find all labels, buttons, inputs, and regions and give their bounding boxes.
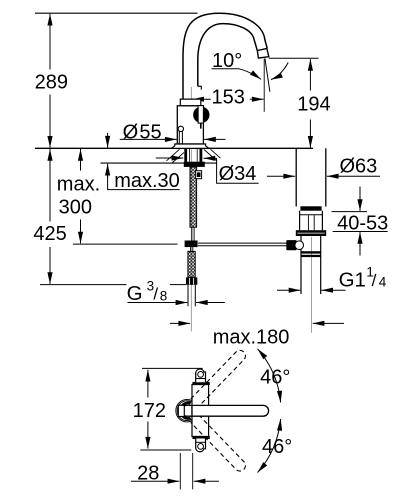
waste body: [300, 236, 302, 294]
pivot ring thick arc: [180, 403, 190, 418]
pull-rod knob on left: [178, 126, 183, 144]
dimension Ø55: [120, 121, 226, 143]
connecting lines below clamp: [190, 247, 192, 251]
spout inner end step: [198, 86, 202, 89]
svg-text:4: 4: [379, 275, 387, 290]
escutcheon base: [171, 144, 209, 148]
svg-text:max.: max.: [57, 173, 100, 195]
top reference line (spout top level): [35, 12, 198, 14]
dimension 40-53: [332, 187, 389, 256]
extension line at spout outlet (vertical): [263, 59, 265, 112]
dimension max.300 vertical: [57, 149, 178, 244]
svg-text:289: 289: [35, 71, 68, 93]
waste upper cylinder: [299, 211, 301, 231]
braided hose upper: [190, 167, 197, 227]
svg-text:G1: G1: [339, 268, 366, 291]
dimension 194: [269, 58, 331, 147]
dimension Ø63: [267, 156, 380, 178]
svg-text:max.180: max.180: [213, 327, 290, 349]
body top collar bar: [193, 382, 209, 384]
counter section hatching left: [167, 149, 185, 163]
svg-text:46°: 46°: [260, 367, 290, 389]
dimension max.30 (counter thickness): [108, 133, 180, 192]
dimension 425 vertical: [33, 149, 66, 284]
dashed spout position lower: [191, 415, 248, 473]
ball joint: [295, 241, 304, 250]
connector block on hose: [195, 171, 201, 179]
svg-text:40-53: 40-53: [337, 213, 388, 235]
svg-text:300: 300: [59, 196, 92, 218]
locknut (black): [184, 162, 205, 167]
G3/8 thread stubs: [187, 285, 189, 307]
pull rod thin section: [191, 227, 193, 240]
svg-text:425: 425: [33, 223, 66, 245]
swivel arc lower 46: [258, 419, 281, 473]
counter section hatching right: [204, 149, 221, 161]
plan body: [192, 385, 209, 437]
horizontal pop-up rod linkage: [198, 242, 287, 244]
svg-text:46°: 46°: [262, 436, 292, 458]
svg-text:/: /: [372, 271, 377, 290]
dashed spout position upper: [191, 348, 248, 406]
svg-text:28: 28: [137, 462, 159, 484]
G3/8 nut (black): [186, 277, 197, 284]
dimension 289 vertical line with arrows: [35, 14, 68, 148]
dimension max.180: [170, 323, 344, 348]
172 top reference line: [142, 367, 203, 369]
svg-text:8: 8: [160, 288, 168, 303]
rod clamp (black): [185, 241, 198, 248]
counter top surface line: [35, 147, 313, 149]
G 3/8 leader line: [40, 284, 127, 286]
dimension Ø34 arrows and leader: [156, 158, 259, 185]
body bottom collar bar: [193, 436, 209, 438]
pivot ring outer circles: [176, 400, 198, 422]
counter underside line: [101, 162, 217, 164]
G 3/8 thread dimension arrows: [128, 302, 225, 304]
dimension 153: [192, 87, 263, 109]
spout outer profile: [183, 13, 267, 99]
spout inner profile: [198, 24, 257, 87]
svg-text:/: /: [153, 285, 158, 304]
dimension G1 1/4: [277, 264, 387, 291]
swivel arc upper 46: [258, 349, 281, 403]
svg-text:G: G: [127, 282, 143, 305]
svg-text:max.30: max.30: [114, 170, 180, 192]
bottom connection bump: [196, 439, 206, 452]
svg-text:153: 153: [212, 87, 245, 109]
svg-text:55: 55: [139, 121, 161, 143]
svg-text:Ø: Ø: [123, 121, 139, 143]
lever knob (black): [286, 240, 296, 250]
10 degree flow line (tilted): [265, 58, 270, 92]
waste flange (black): [296, 230, 326, 236]
svg-text:Ø63: Ø63: [340, 156, 378, 178]
waste nut (double black bars): [301, 251, 321, 253]
waste centerline: [310, 237, 312, 333]
faucet centerline: [190, 87, 192, 332]
handle knob (side view, dark): [193, 107, 209, 123]
top connection bump: [196, 369, 206, 382]
threaded shank: [184, 148, 187, 162]
waste plug top (black): [300, 206, 321, 210]
waste plug stem: [307, 215, 309, 230]
10 degree label and leader: [212, 50, 289, 79]
svg-text:194: 194: [297, 94, 330, 116]
172 bottom reference line: [140, 449, 191, 451]
G 3/8 label: [127, 278, 168, 305]
faucet collar: [180, 99, 201, 106]
spout tube (plan) with rounded pivot cap: [181, 405, 269, 416]
faucet body: [177, 106, 203, 144]
svg-text:172: 172: [133, 400, 166, 422]
dimension 28: [131, 453, 219, 489]
wall tab (white square): [178, 405, 184, 416]
svg-text:Ø34: Ø34: [219, 163, 257, 185]
aerator outlet box (tilted): [257, 49, 269, 59]
braided hose lower: [188, 251, 195, 277]
pop-up waste: drain pipe Ø63: [295, 148, 297, 206]
dimension 172: [133, 370, 166, 449]
